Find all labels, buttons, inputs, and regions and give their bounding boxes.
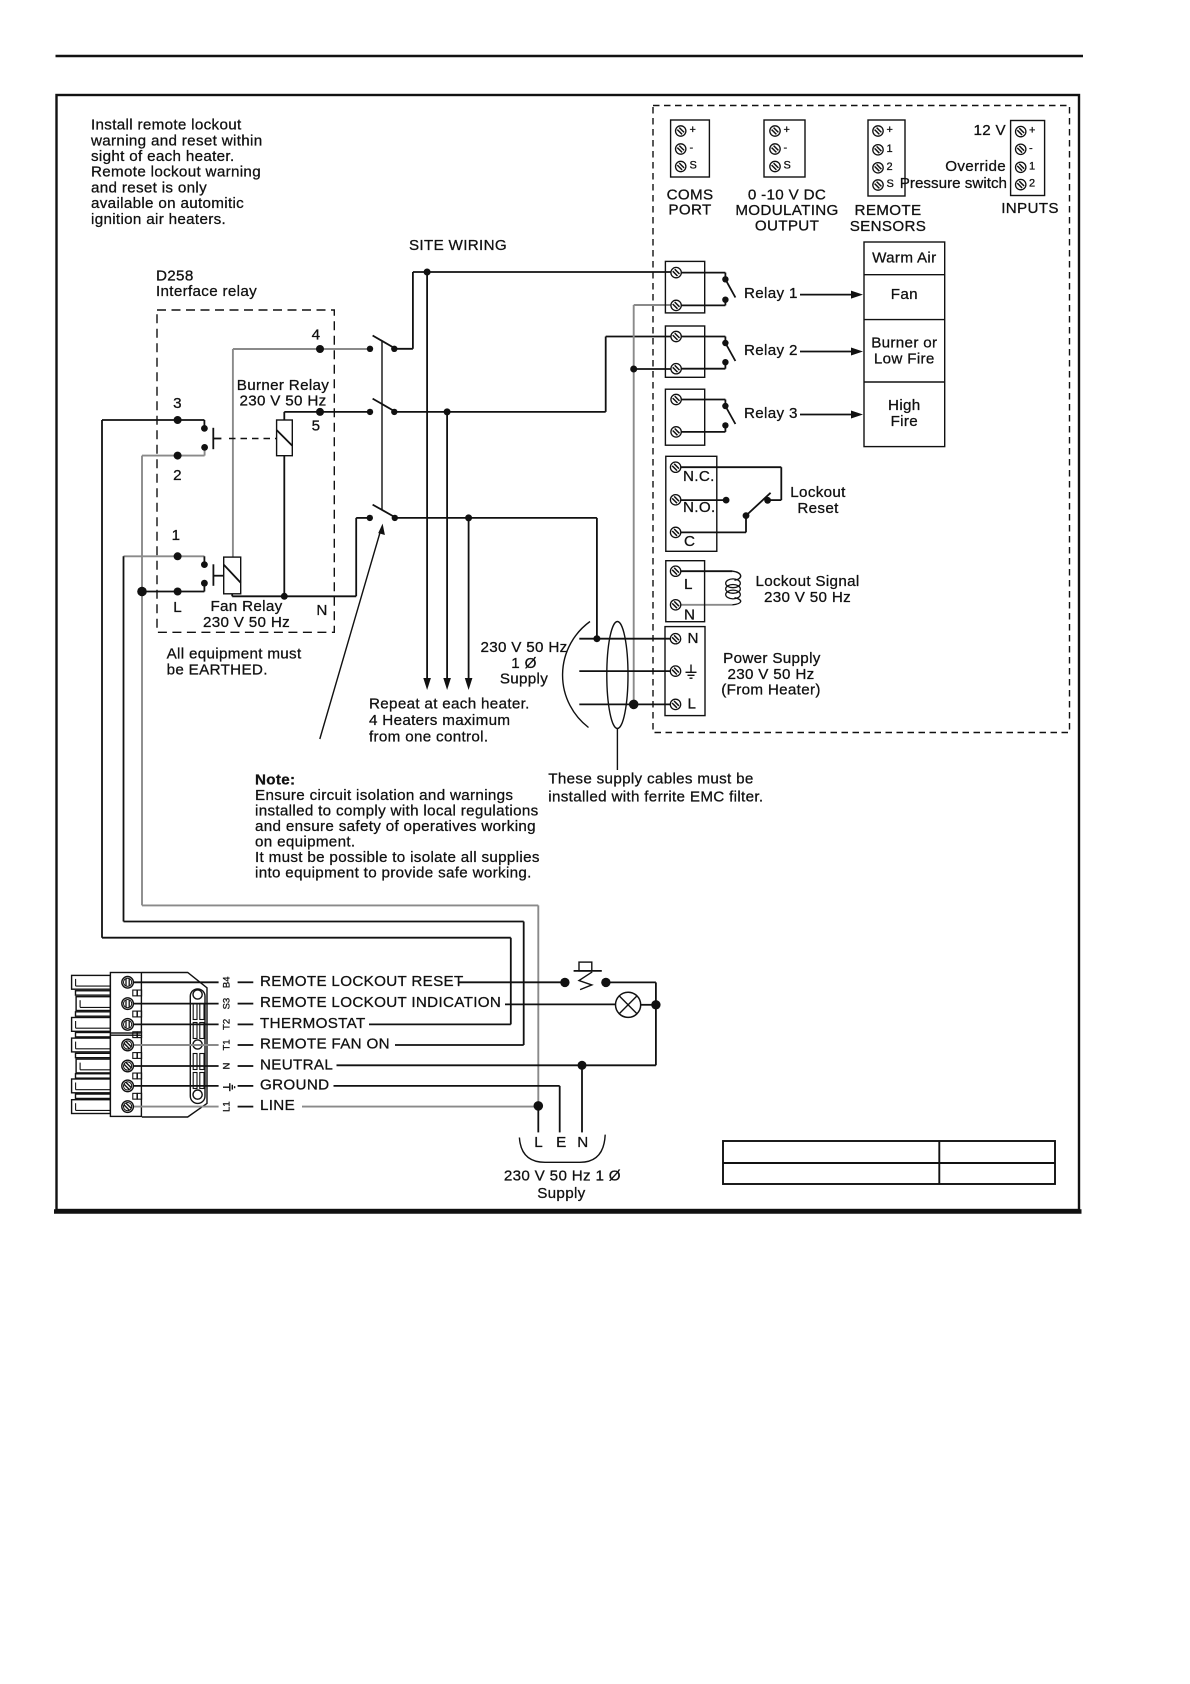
svg-text:Install remote lockout: Install remote lockout xyxy=(91,117,242,134)
svg-text:N: N xyxy=(684,607,695,624)
svg-text:S: S xyxy=(887,178,894,190)
svg-text:ignition air heaters.: ignition air heaters. xyxy=(91,211,226,228)
svg-text:Power Supply: Power Supply xyxy=(723,650,821,667)
svg-text:Override: Override xyxy=(945,158,1006,175)
svg-text:-: - xyxy=(1029,142,1033,154)
svg-text:-: - xyxy=(690,142,694,154)
svg-text:LINE: LINE xyxy=(260,1097,295,1114)
svg-text:Ensure circuit isolation and w: Ensure circuit isolation and warnings xyxy=(255,787,513,804)
svg-text:4: 4 xyxy=(312,327,321,344)
svg-text:Fire: Fire xyxy=(891,413,918,430)
svg-text:All equipment must: All equipment must xyxy=(167,646,302,663)
svg-text:L: L xyxy=(173,599,182,616)
svg-text:-: - xyxy=(784,142,788,154)
svg-text:GROUND: GROUND xyxy=(260,1077,329,1094)
svg-text:It must be possible to isolate: It must be possible to isolate all suppl… xyxy=(255,849,540,866)
svg-text:Relay 3: Relay 3 xyxy=(744,405,798,422)
svg-text:warning and reset within: warning and reset within xyxy=(90,132,262,149)
svg-text:(From Heater): (From Heater) xyxy=(721,682,821,699)
svg-text:from one control.: from one control. xyxy=(369,729,488,746)
svg-text:230 V 50 Hz: 230 V 50 Hz xyxy=(239,393,326,410)
svg-text:L: L xyxy=(688,696,697,713)
svg-text:Note:: Note: xyxy=(255,772,295,789)
svg-text:Burner Relay: Burner Relay xyxy=(237,377,330,394)
svg-text:1 Ø: 1 Ø xyxy=(511,655,536,672)
svg-text:High: High xyxy=(888,397,921,414)
svg-text:L1: L1 xyxy=(221,1101,232,1112)
svg-text:D258: D258 xyxy=(156,268,194,285)
svg-text:Pressure switch: Pressure switch xyxy=(900,175,1007,192)
svg-text:230 V 50 Hz: 230 V 50 Hz xyxy=(764,589,851,606)
svg-text:0 -10 V DC: 0 -10 V DC xyxy=(748,187,826,204)
svg-text:C: C xyxy=(684,533,695,550)
svg-text:S: S xyxy=(784,160,791,172)
svg-text:230 V 50 Hz: 230 V 50 Hz xyxy=(727,666,814,683)
svg-text:PORT: PORT xyxy=(668,202,711,219)
svg-text:3: 3 xyxy=(173,395,182,412)
svg-text:Relay 1: Relay 1 xyxy=(744,285,798,302)
svg-text:OUTPUT: OUTPUT xyxy=(755,218,819,235)
svg-text:Warm Air: Warm Air xyxy=(872,250,936,267)
svg-text:sight of each heater.: sight of each heater. xyxy=(91,148,235,165)
svg-text:T1: T1 xyxy=(221,1039,232,1050)
svg-text:2: 2 xyxy=(1029,178,1035,190)
svg-text:230 V 50 Hz 1 Ø: 230 V 50 Hz 1 Ø xyxy=(504,1168,621,1185)
svg-text:Fan: Fan xyxy=(891,286,918,303)
svg-text:REMOTE: REMOTE xyxy=(855,202,922,219)
svg-text:N: N xyxy=(221,1062,232,1069)
svg-text:Reset: Reset xyxy=(797,500,839,517)
svg-text:12 V: 12 V xyxy=(973,122,1006,139)
svg-text:REMOTE LOCKOUT RESET: REMOTE LOCKOUT RESET xyxy=(260,973,464,990)
svg-text:installed with ferrite EMC fil: installed with ferrite EMC filter. xyxy=(548,789,763,806)
svg-text:T2: T2 xyxy=(221,1019,232,1030)
svg-text:Fan Relay: Fan Relay xyxy=(210,598,282,615)
svg-text:These supply cables must be: These supply cables must be xyxy=(548,771,753,788)
svg-text:+: + xyxy=(784,124,790,136)
svg-text:SITE WIRING: SITE WIRING xyxy=(409,237,507,254)
svg-text:and reset is only: and reset is only xyxy=(91,179,207,196)
svg-text:1: 1 xyxy=(1029,160,1035,172)
svg-text:installed to comply with local: installed to comply with local regulatio… xyxy=(255,803,539,820)
svg-text:S3: S3 xyxy=(221,998,232,1010)
svg-text:NEUTRAL: NEUTRAL xyxy=(260,1057,333,1074)
svg-text:Supply: Supply xyxy=(500,671,548,688)
svg-text:into equipment to provide safe: into equipment to provide safe working. xyxy=(255,865,532,882)
svg-text:2: 2 xyxy=(887,161,893,173)
svg-text:REMOTE LOCKOUT INDICATION: REMOTE LOCKOUT INDICATION xyxy=(260,994,501,1011)
svg-text:1: 1 xyxy=(887,143,893,155)
svg-text:be EARTHED.: be EARTHED. xyxy=(167,662,268,679)
svg-text:Lockout: Lockout xyxy=(790,484,846,501)
svg-text:L: L xyxy=(684,576,693,593)
svg-text:on equipment.: on equipment. xyxy=(255,834,355,851)
svg-text:Repeat at each heater.: Repeat at each heater. xyxy=(369,696,530,713)
svg-text:N: N xyxy=(688,630,699,647)
svg-text:N.C.: N.C. xyxy=(683,468,715,485)
svg-text:+: + xyxy=(690,124,696,136)
svg-text:230 V 50 Hz: 230 V 50 Hz xyxy=(480,639,567,656)
svg-text:THERMOSTAT: THERMOSTAT xyxy=(260,1015,366,1032)
svg-text:and ensure safety of operative: and ensure safety of operatives working xyxy=(255,818,536,835)
svg-text:N: N xyxy=(577,1134,588,1151)
svg-text:N: N xyxy=(316,602,327,619)
svg-text:230 V 50 Hz: 230 V 50 Hz xyxy=(203,614,290,631)
svg-text:Relay 2: Relay 2 xyxy=(744,342,798,359)
svg-text:5: 5 xyxy=(312,418,321,435)
svg-text:L: L xyxy=(534,1134,543,1151)
svg-text:Interface relay: Interface relay xyxy=(156,283,257,300)
svg-text:E: E xyxy=(556,1134,566,1151)
svg-text:INPUTS: INPUTS xyxy=(1001,200,1059,217)
svg-text:available on automitic: available on automitic xyxy=(91,195,244,212)
svg-text:Remote lockout warning: Remote lockout warning xyxy=(91,164,261,181)
svg-text:REMOTE FAN ON: REMOTE FAN ON xyxy=(260,1036,390,1053)
svg-text:MODULATING: MODULATING xyxy=(735,202,838,219)
svg-text:+: + xyxy=(887,124,893,136)
svg-text:S: S xyxy=(690,160,697,172)
svg-text:Supply: Supply xyxy=(537,1185,585,1202)
svg-text:4 Heaters maximum: 4 Heaters maximum xyxy=(369,712,510,729)
svg-text:Low Fire: Low Fire xyxy=(874,350,935,367)
svg-text:2: 2 xyxy=(173,467,182,484)
svg-text:SENSORS: SENSORS xyxy=(850,218,927,235)
svg-text:1: 1 xyxy=(172,527,181,544)
svg-text:Lockout Signal: Lockout Signal xyxy=(755,573,859,590)
svg-text:B4: B4 xyxy=(221,976,232,988)
svg-text:+: + xyxy=(1029,125,1035,137)
svg-text:Burner or: Burner or xyxy=(871,334,937,351)
svg-text:N.O.: N.O. xyxy=(683,499,716,516)
